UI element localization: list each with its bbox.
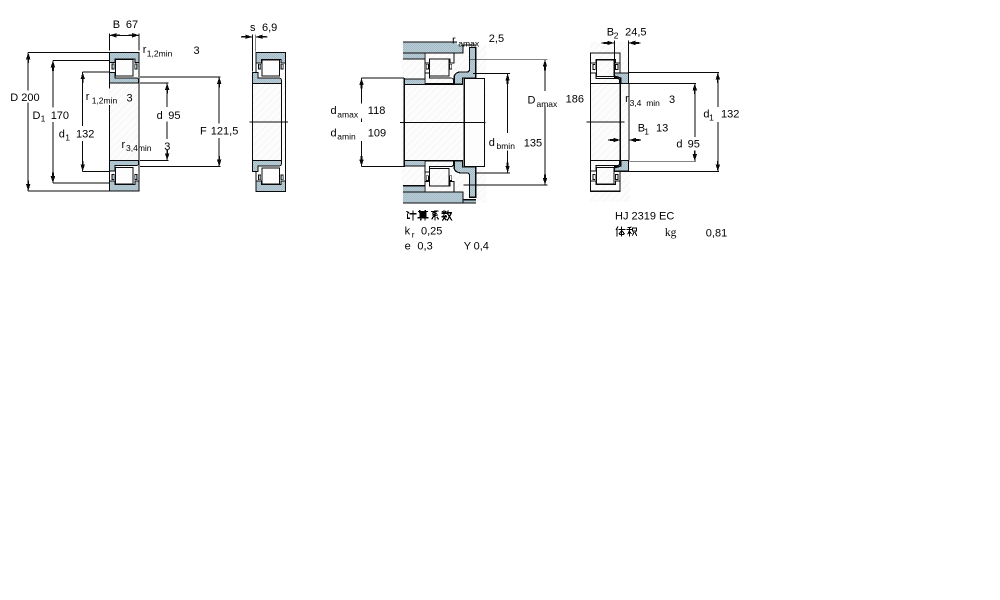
d_b ext top	[473, 73, 510, 75]
D_amax ext top	[470, 59, 548, 61]
svg-text:1: 1	[709, 113, 714, 123]
svg-text:3: 3	[164, 141, 170, 153]
view2 outer ring right face line	[284, 53, 286, 192]
svg-text:121,5: 121,5	[211, 126, 239, 138]
view3 hatched panel	[402, 42, 487, 204]
svg-text:2,5: 2,5	[489, 33, 504, 45]
d_a ext bottom	[362, 166, 404, 168]
dim D 200	[26, 52, 30, 191]
v3 bearing left face	[424, 53, 426, 84]
svg-text:24,5: 24,5	[625, 27, 646, 39]
svg-text:d: d	[331, 128, 337, 140]
F ext top	[140, 76, 221, 78]
svg-text:13: 13	[656, 123, 668, 135]
view4 hatched panel	[590, 42, 630, 202]
svg-text:s: s	[250, 22, 256, 34]
svg-text:1: 1	[644, 126, 649, 136]
svg-text:D: D	[528, 94, 536, 106]
svg-text:3: 3	[669, 94, 675, 106]
dim d_b	[505, 74, 509, 173]
d_b ext bottom	[476, 172, 510, 174]
svg-text:118: 118	[368, 105, 386, 117]
d1 ext bottom	[83, 170, 110, 172]
view2 outer ring left face line	[255, 53, 257, 73]
s arrows	[241, 36, 252, 38]
HJ ring chamfer wedge (bottom)	[615, 166, 621, 169]
v4 d ext bottom	[629, 160, 696, 162]
svg-text:186: 186	[566, 94, 584, 106]
svg-text:r: r	[122, 139, 126, 151]
s ext lines	[251, 35, 253, 72]
svg-text:3: 3	[127, 93, 133, 105]
d ext top	[140, 82, 169, 84]
d ext bottom	[140, 160, 169, 162]
view4 centerline	[587, 121, 625, 123]
svg-text:amax: amax	[537, 99, 559, 109]
view2 inner ring left face line	[251, 73, 253, 172]
svg-text:kg: kg	[665, 227, 677, 239]
view2 bottom edge	[256, 191, 285, 193]
svg-text:min: min	[646, 98, 660, 108]
housing band overhang sliver	[463, 42, 476, 45]
svg-text:1,2min: 1,2min	[92, 95, 118, 105]
housing bore line	[403, 52, 463, 54]
svg-text:0,81: 0,81	[706, 228, 727, 240]
dim D_amax	[543, 60, 547, 185]
dim B 67 line with arrows	[109, 34, 139, 36]
D ext bottom	[28, 190, 109, 192]
svg-text:3,4: 3,4	[630, 98, 642, 108]
view2 roller (top)	[262, 60, 280, 76]
view2 centerline	[250, 121, 289, 123]
view1 cage (top)	[112, 64, 114, 69]
svg-text:bmin: bmin	[497, 141, 516, 151]
svg-text:0,3: 0,3	[417, 240, 432, 252]
svg-text:109: 109	[368, 128, 386, 140]
svg-text:135: 135	[524, 137, 542, 149]
view3 bearing outline	[425, 53, 454, 84]
heading calculation factors	[407, 211, 416, 220]
svg-text:2: 2	[614, 30, 619, 40]
view2 hatched bore	[252, 72, 285, 171]
view1 bottom section (mirror)	[109, 160, 139, 191]
v3 outer ring outline (top)	[425, 53, 454, 63]
svg-text:95: 95	[688, 138, 700, 150]
svg-text:r: r	[412, 229, 415, 239]
HJ ring section (top, view4)	[615, 73, 629, 84]
v4 d ext top	[629, 82, 696, 84]
dim B 67 extension lines	[108, 33, 110, 50]
v4 outer ring outline (top)	[590, 53, 620, 63]
svg-text:95: 95	[168, 110, 180, 122]
v4 d1 ext bottom	[628, 171, 719, 173]
svg-text:e: e	[405, 240, 411, 252]
B1 arrows	[608, 139, 621, 141]
svg-text:amax: amax	[458, 39, 480, 49]
d_a ext top	[362, 77, 404, 79]
svg-text:d: d	[331, 105, 337, 117]
shaft shoulder top edge	[404, 78, 425, 80]
D1 ext top	[53, 59, 110, 61]
d1 ext top	[83, 71, 110, 73]
svg-text:amin: amin	[337, 132, 356, 142]
svg-text:r: r	[625, 93, 629, 105]
svg-text:1,2min: 1,2min	[147, 48, 173, 58]
svg-text:amax: amax	[337, 109, 359, 119]
view2 outer ring (top)	[256, 53, 285, 63]
housing shoulder bottom edge	[403, 58, 425, 60]
svg-text:r: r	[452, 34, 456, 46]
D ext top	[28, 51, 109, 53]
dim d1 132 view4	[716, 73, 720, 172]
label r_amax 2,5 backdrop	[457, 33, 505, 45]
D1 ext bottom	[53, 182, 110, 184]
shaft surface line	[404, 84, 463, 86]
svg-text:k: k	[405, 226, 411, 238]
housing band (top)	[403, 42, 463, 53]
v4 d1 ext top	[629, 72, 719, 74]
svg-text:d: d	[489, 137, 495, 149]
view2 inner ring with flange (top)	[252, 73, 281, 84]
housing overhang bore line	[463, 44, 476, 46]
svg-text:67: 67	[126, 19, 138, 31]
dim F 121,5	[217, 77, 221, 167]
view1 outer ring (top)	[109, 52, 139, 62]
svg-text:132: 132	[721, 108, 739, 120]
gap in bearing edge line behind label	[109, 89, 111, 106]
svg-text:B: B	[113, 19, 120, 31]
abutment sleeve (right of HJ ring)	[464, 79, 484, 167]
svg-text:d: d	[157, 110, 163, 122]
svg-text:3: 3	[194, 45, 200, 57]
svg-text:132: 132	[76, 129, 94, 141]
shaft shoulder (top)	[404, 79, 424, 84]
svg-text:HJ 2319 EC: HJ 2319 EC	[615, 211, 674, 223]
dim D1 170	[51, 60, 55, 183]
HJ ring section (bottom, view4)	[615, 161, 629, 172]
HJ angle ring (top half)	[454, 48, 476, 84]
svg-text:1: 1	[41, 114, 46, 124]
view3 centerline	[400, 121, 486, 123]
housing band top edge	[403, 41, 476, 43]
view2 top edge	[256, 52, 285, 54]
view1 inner ring with flange (top)	[109, 72, 138, 83]
B2 ext lines	[613, 41, 615, 73]
HJ ring chamfer wedge (top)	[615, 75, 621, 78]
svg-text:0,4: 0,4	[474, 240, 489, 252]
view1 roller (top)	[115, 60, 132, 76]
svg-text:d: d	[59, 129, 65, 141]
svg-text:3,4min: 3,4min	[126, 143, 152, 153]
svg-text:F: F	[200, 126, 207, 138]
v3 inner ring outline (top)	[425, 73, 454, 84]
F ext bottom	[140, 166, 221, 168]
svg-text:Y: Y	[464, 240, 472, 252]
svg-text:d: d	[676, 138, 682, 150]
view1 hatched body	[109, 52, 139, 191]
svg-text:170: 170	[51, 110, 69, 122]
dim d 95 view4	[693, 83, 697, 161]
shaft left cut edge	[403, 78, 405, 167]
housing shoulder step face	[462, 42, 464, 53]
v4 roller (top)	[596, 60, 614, 76]
svg-text:r: r	[86, 91, 90, 103]
svg-text:D: D	[10, 92, 18, 104]
housing shoulder (top)	[403, 53, 424, 59]
svg-text:6,9: 6,9	[262, 22, 277, 34]
view2 cage (top)	[259, 64, 261, 69]
HJ sleeve right face through-line	[628, 84, 630, 161]
v4 inner ring outline (top)	[590, 73, 619, 84]
label weight mass	[616, 227, 625, 236]
inner ring right face through-line	[620, 84, 622, 161]
v3 cage (top)	[426, 64, 428, 69]
svg-text:200: 200	[21, 92, 39, 104]
v3 roller (top)	[430, 59, 450, 76]
dim d_a	[359, 78, 363, 167]
view4 bearing body outline	[590, 53, 620, 192]
v4 cage (top)	[593, 65, 595, 70]
svg-text:D: D	[33, 110, 41, 122]
svg-text:0,25: 0,25	[421, 226, 442, 238]
B2 arrows	[602, 42, 615, 44]
HJ angle ring (bottom half)	[454, 161, 476, 197]
view2 inner ring right face line	[281, 81, 283, 164]
svg-text:1: 1	[65, 133, 70, 143]
D_amax ext bottom	[464, 184, 548, 186]
dim d1 132	[81, 72, 85, 171]
dim d 95	[165, 83, 169, 161]
